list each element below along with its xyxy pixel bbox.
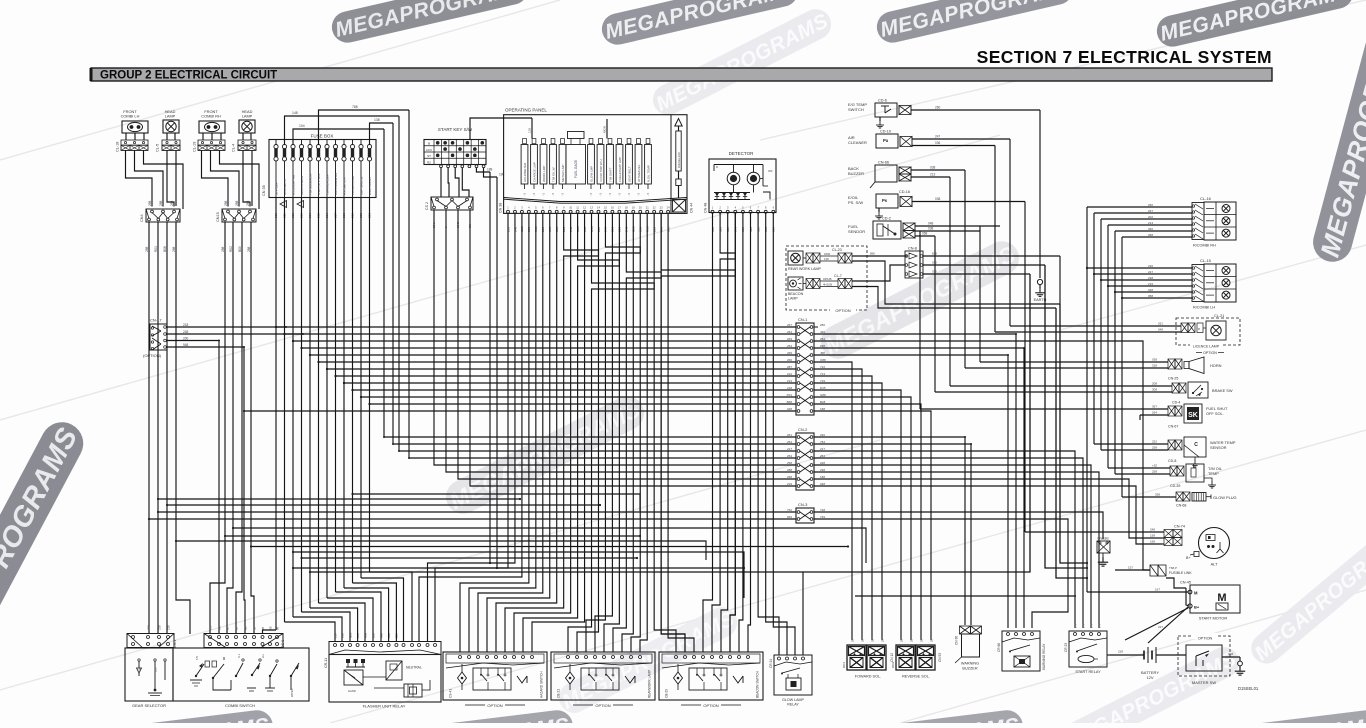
svg-text:58: 58	[252, 626, 256, 630]
wires start key to CS-2	[441, 168, 469, 197]
svg-text:CL-5: CL-5	[156, 144, 160, 152]
CN-2 right pin labels	[820, 433, 825, 486]
svg-text:P01: P01	[787, 393, 793, 397]
watermark capsule bottom-mid	[554, 602, 743, 718]
watermark capsule bottom-right-inner	[1056, 642, 1245, 728]
svg-text:138: 138	[824, 257, 829, 261]
svg-text:COMBI SWITCH: COMBI SWITCH	[225, 703, 255, 708]
svg-text:WARNING: WARNING	[961, 662, 979, 666]
option dashed box rear work and beacon lamps	[786, 246, 867, 314]
bus wire above fuse box 4	[293, 124, 384, 145]
wires HEAD LAMP left to CN4	[167, 150, 176, 206]
wires CD-2 right	[915, 222, 1000, 237]
operating panel riser wires	[528, 118, 608, 139]
lamp HEAD LAMP right	[238, 109, 256, 150]
svg-text:260: 260	[935, 106, 941, 110]
wire glow plug left	[1122, 493, 1176, 498]
svg-text:288: 288	[787, 468, 792, 472]
wire lower bus line 8	[292, 551, 744, 598]
svg-text:066: 066	[1148, 227, 1153, 231]
switch E/G TEMP SWITCH CD-6	[848, 99, 911, 118]
svg-text:R2: R2	[427, 160, 431, 164]
svg-text:Chassis: Chassis	[1097, 537, 1109, 541]
svg-text:HORN&T/S: HORN&T/S	[283, 179, 287, 195]
svg-text:Pa: Pa	[883, 138, 889, 143]
svg-text:CS-9: CS-9	[281, 640, 285, 648]
svg-text:266: 266	[1148, 203, 1153, 207]
svg-text:WORK LMP: WORK LMP	[542, 166, 546, 182]
wire lower bus line 5	[224, 535, 641, 537]
svg-text:B28: B28	[820, 400, 826, 404]
operating panel connector CN-38 pin row	[499, 203, 671, 213]
svg-text:248: 248	[183, 330, 189, 334]
lamp cluster CL-15 R/COMBI LH	[1192, 258, 1236, 310]
chassis earth block	[1097, 537, 1110, 567]
operating panel modules	[521, 139, 651, 197]
detector gauges	[714, 165, 773, 187]
svg-text:168: 168	[1150, 540, 1155, 544]
operating panel box	[504, 108, 687, 214]
fusible link	[1150, 565, 1192, 576]
svg-text:CN-17: CN-17	[150, 318, 162, 323]
svg-text:CD-39: CD-39	[1170, 484, 1180, 488]
svg-text:CN 53: CN 53	[938, 653, 942, 662]
svg-text:CN-68: CN-68	[1176, 504, 1186, 508]
svg-text:CN-2: CN-2	[798, 427, 808, 432]
switch MASTER SW OPTION	[1178, 633, 1230, 685]
svg-text:CR 23: CR 23	[1064, 643, 1068, 652]
svg-text:R8: R8	[217, 626, 221, 630]
svg-text:247: 247	[935, 135, 941, 139]
svg-text:FUSE BOX: FUSE BOX	[311, 134, 334, 139]
sensor vertical drop wires right side	[920, 110, 1040, 532]
svg-text:7MA/WZR,LMP: 7MA/WZR,LMP	[325, 174, 329, 195]
svg-text:GROUP 2 ELECTRICAL CIRCUIT: GROUP 2 ELECTRICAL CIRCUIT	[100, 70, 277, 82]
CN-1 right pin labels	[820, 323, 826, 411]
svg-text:START RELAY: START RELAY	[1075, 670, 1101, 674]
wire weave crossover pairs	[505, 213, 735, 652]
svg-text:935UB: 935UB	[823, 277, 832, 281]
svg-text:287: 287	[787, 365, 792, 369]
stray junction dots lattice	[218, 326, 1025, 459]
svg-text:762: 762	[787, 508, 792, 512]
sensor T/M OIL TEMP CD-39	[1170, 464, 1223, 488]
combi switch box	[173, 648, 309, 708]
wires start key right jogs down	[476, 168, 504, 178]
connector CN15	[216, 209, 256, 222]
svg-text:REVERSE SOL.: REVERSE SOL.	[902, 675, 930, 679]
svg-text:J58: J58	[820, 351, 825, 355]
wire diagonal battery to B+	[1148, 607, 1188, 643]
svg-text:288: 288	[246, 200, 250, 206]
svg-text:213: 213	[787, 379, 792, 383]
svg-text:CS-41: CS-41	[449, 689, 453, 698]
svg-text:FLASH R,LMP: FLASH R,LMP	[351, 175, 355, 195]
svg-text:CN-1: CN-1	[798, 317, 808, 322]
svg-text:REAR WORK LAMP: REAR WORK LAMP	[788, 267, 822, 271]
connector CN-2	[796, 427, 814, 490]
svg-text:1 T: 1 T	[1081, 624, 1085, 628]
svg-text:240: 240	[820, 433, 825, 437]
wire weave staircases from operating panel and detector to bottom option boxes	[460, 213, 751, 652]
svg-text:188: 188	[820, 475, 825, 479]
svg-text:MON: MON	[603, 126, 607, 133]
svg-text:H.L: H.L	[261, 653, 265, 658]
wire CN-3 p2 to warning relay	[814, 519, 1068, 628]
svg-text:28: 28	[860, 638, 864, 642]
svg-text:719: 719	[820, 379, 825, 383]
svg-text:254: 254	[820, 337, 825, 341]
watermark capsule bottom-far-right-edge	[1175, 708, 1366, 728]
svg-text:CL-21: CL-21	[1214, 314, 1224, 318]
svg-text:048: 048	[1148, 288, 1153, 292]
svg-text:28: 28	[909, 638, 913, 642]
svg-text:CN4: CN4	[140, 214, 144, 222]
wires CN-66 right	[911, 166, 965, 178]
CN-3 pin labels	[787, 508, 825, 519]
svg-text:048: 048	[787, 407, 792, 411]
buzzer BACK BUZZER CN-66	[848, 161, 911, 189]
wire labels above CS-9	[208, 626, 279, 630]
wire staircase operating panel pins 1-3 to flasher	[419, 213, 522, 641]
wires CN-2 right pins to warning buzzer	[814, 437, 971, 625]
svg-text:G88: G88	[820, 393, 826, 397]
svg-text:068: 068	[1148, 233, 1153, 237]
svg-text:104: 104	[299, 124, 305, 128]
svg-text:318: 318	[1152, 364, 1157, 368]
svg-text:038: 038	[1152, 358, 1157, 362]
svg-text:BUZZER: BUZZER	[848, 171, 864, 176]
flasher unit relay box	[329, 655, 441, 709]
lamp LICENCE LAMP CL-21 OPTION	[1176, 314, 1240, 355]
svg-text:CHARGE LMP: CHARGE LMP	[533, 162, 537, 182]
svg-text:248: 248	[1150, 528, 1155, 532]
wires CN-17 to midfield	[166, 323, 303, 347]
svg-text:264: 264	[1152, 411, 1157, 415]
wire lower bus line 3	[166, 504, 601, 506]
svg-text:358: 358	[1155, 493, 1160, 497]
svg-text:048: 048	[1158, 328, 1163, 332]
watermark capsule center	[440, 390, 650, 519]
svg-text:R/COMBI RH: R/COMBI RH	[1193, 244, 1216, 248]
svg-text:264: 264	[787, 330, 792, 334]
wire CN-1 p3 to fusible link	[814, 341, 1150, 570]
watermark capsule top-mid-b	[874, 0, 1076, 46]
svg-text:200: 200	[183, 337, 189, 341]
svg-text:038: 038	[928, 227, 934, 231]
wire CN-8 drop to glow lamp relay pin 4	[803, 274, 1030, 655]
svg-text:CR-11: CR-11	[324, 658, 328, 668]
svg-text:713: 713	[820, 372, 825, 376]
svg-text:898: 898	[870, 252, 875, 256]
watermark capsule bottom-center-edge	[365, 708, 574, 728]
svg-text:1800: 1800	[824, 252, 831, 256]
solenoid FORWARD SOL	[842, 638, 894, 678]
svg-text:LMP SW(T/S): LMP SW(T/S)	[359, 177, 363, 195]
wires CN-2 right pins to start relay	[814, 451, 1099, 628]
start relay CR-23	[1064, 624, 1107, 674]
svg-text:#38: #38	[820, 344, 825, 348]
wire long horizontal y572	[309, 571, 803, 573]
wire to start motor M terminal	[1087, 588, 1188, 593]
fuse box	[269, 134, 376, 198]
svg-text:START MOTOR: START MOTOR	[1199, 616, 1228, 621]
svg-text:CN-67: CN-67	[1168, 425, 1178, 429]
svg-text:008: 008	[1228, 652, 1233, 656]
glow plug CN-68	[1176, 492, 1237, 508]
vertical bus right side	[1087, 207, 1122, 592]
connector CN4	[140, 209, 180, 222]
svg-text:CB-29: CB-29	[665, 689, 669, 698]
bus wire 13B above fuse box	[370, 118, 394, 145]
svg-text:SECTION 7 ELECTRICAL SYSTEM: SECTION 7 ELECTRICAL SYSTEM	[977, 47, 1272, 67]
wire fusible node down to start motor B+	[1186, 588, 1189, 606]
watermark capsule mid-right	[815, 235, 1025, 364]
svg-text:712: 712	[820, 365, 825, 369]
svg-text:058: 058	[1148, 294, 1153, 298]
svg-text:268: 268	[787, 475, 792, 479]
wire lower bus line 9	[300, 557, 638, 559]
svg-text:218: 218	[166, 625, 170, 630]
wire labels below fuse box	[274, 213, 372, 218]
wire from start key area to operating panel riser	[470, 118, 532, 139]
svg-text:CS 2: CS 2	[425, 202, 429, 210]
wires HEAD LAMP right to CN15	[243, 150, 252, 206]
svg-text:START KEY S/W: START KEY S/W	[438, 127, 473, 132]
alternator ALT CN-74	[1164, 525, 1230, 567]
svg-text:288: 288	[221, 246, 225, 252]
connector CN-3	[796, 502, 814, 523]
lamp REAR WORK LAMP with CL-23	[788, 248, 852, 271]
svg-text:BRAKE SW: BRAKE SW	[1212, 388, 1233, 393]
watermark capsule top-left	[329, 0, 531, 46]
wire bus fuse box drops to CN-1 left pins	[243, 326, 796, 412]
svg-text:OFF SOL.: OFF SOL.	[1206, 411, 1224, 416]
detector box	[709, 151, 776, 213]
svg-text:GLOW LAMP: GLOW LAMP	[782, 698, 804, 702]
svg-text:CN 38: CN 38	[499, 203, 503, 213]
svg-text:CN 44: CN 44	[690, 203, 694, 213]
svg-text:CL-15: CL-15	[1200, 258, 1212, 263]
svg-text:O88: O88	[820, 358, 826, 362]
bus wire 14B above fuse box	[285, 111, 400, 145]
wires into CL-16 from vertical bus	[1087, 203, 1192, 237]
wire lower bus line 4	[232, 527, 866, 563]
svg-text:CN 35: CN 35	[262, 185, 266, 196]
glow lamp relay CR-24	[769, 655, 812, 707]
svg-text:748: 748	[820, 508, 825, 512]
wire CN-1 p2 to warning relay	[814, 334, 1016, 628]
svg-text:BEACON SWITCH: BEACON SWITCH	[756, 670, 760, 698]
svg-text:G8: G8	[243, 626, 247, 630]
wire lower bus line 6	[175, 540, 706, 560]
svg-text:219: 219	[787, 482, 792, 486]
svg-text:L8B: L8B	[154, 667, 158, 672]
lamp cluster CL-16 R/COMBI RH	[1192, 196, 1236, 248]
option box REARWORK LAMP switch	[551, 652, 655, 708]
svg-text:PS. S/W: PS. S/W	[848, 200, 863, 205]
svg-text:CN15: CN15	[216, 212, 220, 222]
svg-text:38: 38	[234, 626, 238, 630]
svg-text:28: 28	[880, 638, 884, 642]
wire long drop right of fuse box 4	[383, 129, 385, 437]
svg-text:266: 266	[787, 358, 792, 362]
wire long drop right of fuse box 2	[398, 116, 400, 451]
svg-text:436: 436	[820, 330, 825, 334]
svg-text:R.ELY,STP SOL: R.ELY,STP SOL	[317, 173, 321, 195]
svg-text:218: 218	[146, 625, 150, 630]
svg-text:228: 228	[1148, 276, 1153, 280]
svg-text:CD-10: CD-10	[880, 130, 891, 134]
operating panel level meter	[675, 119, 682, 199]
svg-text:CN-66: CN-66	[878, 161, 889, 165]
svg-text:1 T: 1 T	[1073, 624, 1077, 628]
svg-text:048: 048	[820, 482, 825, 486]
wire CN-3 p1 to chassis earth	[814, 512, 1103, 539]
solenoid FUEL SHUT OFF SOL CN-67	[1168, 404, 1228, 429]
svg-text:28: 28	[929, 638, 933, 642]
svg-text:G.LOW,MP RE: G.LOW,MP RE	[291, 175, 295, 195]
connector CS-1 gear selector	[127, 634, 177, 649]
svg-text:CN-74: CN-74	[1174, 525, 1185, 529]
svg-text:R02: R02	[229, 246, 233, 252]
svg-text:219: 219	[1148, 282, 1153, 286]
svg-text:CR 24: CR 24	[769, 659, 773, 668]
svg-text:FUSIBLE LINK: FUSIBLE LINK	[1169, 571, 1192, 575]
svg-text:CD-8: CD-8	[1168, 459, 1176, 463]
svg-text:CN 48: CN 48	[704, 203, 708, 213]
svg-text:280: 280	[820, 323, 825, 327]
bus wire 788 above fuse box	[319, 105, 410, 145]
svg-text:WIPER: WIPER	[290, 688, 294, 697]
svg-text:HAZARD SWITCH: HAZARD SWITCH	[540, 671, 544, 698]
svg-text:258: 258	[1152, 470, 1157, 474]
wire master switch to earth	[1222, 652, 1245, 675]
svg-text:749: 749	[820, 515, 825, 519]
watermark capsule mid-upper	[648, 4, 837, 120]
svg-text:B09: B09	[238, 246, 242, 252]
svg-text:158: 158	[1150, 534, 1155, 538]
svg-text:TEMP: TEMP	[1208, 471, 1219, 476]
wire bus CN4 down to gear selector	[149, 222, 190, 634]
svg-text:ACC: ACC	[426, 148, 433, 152]
svg-text:258: 258	[787, 461, 792, 465]
svg-text:DO2: DO2	[891, 662, 895, 669]
svg-text:CN-8: CN-8	[908, 247, 917, 251]
svg-text:T/M SOLENOIR: T/M SOLENOIR	[308, 173, 312, 195]
banner GROUP 2 ELECTRICAL CIRCUIT	[91, 68, 1272, 82]
svg-text:1 B: 1 B	[208, 626, 212, 630]
svg-text:252: 252	[1152, 440, 1157, 444]
svg-text:267: 267	[787, 323, 792, 327]
svg-text:COMBI LH: COMBI LH	[121, 114, 140, 119]
svg-text:COMBI RH: COMBI RH	[201, 114, 221, 119]
solenoid REVERSE SOL	[891, 638, 942, 678]
svg-text:12V: 12V	[1146, 675, 1153, 680]
svg-text:068: 068	[922, 232, 928, 236]
svg-text:227: 227	[1158, 625, 1163, 629]
wire diagonal start relay to B+	[1125, 608, 1188, 640]
svg-text:948: 948	[183, 343, 189, 347]
svg-text:226: 226	[1148, 264, 1153, 268]
svg-text:28: 28	[870, 638, 874, 642]
lamp HEAD LAMP left	[162, 109, 180, 150]
svg-text:288: 288	[148, 200, 152, 206]
detector connector CN-48 pin row	[704, 203, 775, 213]
svg-text:FUEL GAGE: FUEL GAGE	[574, 160, 578, 178]
wires CN-1 p10-p13 to reverse solenoid	[814, 390, 931, 640]
wires FRONT COMBI LH to CN4	[126, 150, 184, 209]
svg-text:HAND: HAND	[348, 689, 356, 693]
svg-text:W.TM&FUEL: W.TM&FUEL	[637, 164, 641, 182]
svg-text:CL-4: CL-4	[232, 144, 236, 152]
wire lower bus line 7	[250, 545, 849, 547]
svg-text:038: 038	[932, 261, 937, 265]
svg-text:SENSOR: SENSOR	[1210, 445, 1227, 450]
wire CN-1 p5 to warning relay	[814, 355, 1008, 628]
wire fusible link to B+ node	[1166, 578, 1186, 588]
svg-text:BEACON&RR: BEACON&RR	[300, 175, 304, 195]
svg-text:OPTION: OPTION	[1203, 351, 1217, 355]
watermark capsule top-right	[1154, 0, 1356, 50]
wires fuel shut off left	[920, 405, 1168, 421]
svg-text:367: 367	[1152, 405, 1157, 409]
svg-text:M: M	[1217, 592, 1226, 604]
svg-text:(OPTION): (OPTION)	[143, 353, 162, 358]
connector CR-11 flasher unit	[324, 642, 441, 669]
svg-text:T/M SHIFT: T/M SHIFT	[609, 167, 613, 182]
svg-text:261: 261	[787, 433, 792, 437]
svg-text:CD-16: CD-16	[899, 190, 910, 194]
wire CD-16 right	[912, 197, 1025, 202]
connector CN-17 (OPTION)	[143, 318, 167, 359]
svg-text:LAMP: LAMP	[242, 114, 253, 119]
wires water temp left	[1094, 440, 1168, 451]
svg-text:218: 218	[183, 323, 189, 327]
wire CN-1 p4 to warning relay	[814, 348, 1024, 628]
svg-text:CB-21: CB-21	[557, 689, 561, 698]
svg-text:254: 254	[787, 440, 792, 444]
svg-text:28: 28	[850, 638, 854, 642]
svg-text:038: 038	[930, 166, 936, 170]
svg-text:E/WATREUN: E/WATREUN	[368, 177, 372, 195]
watermark capsule bottom-right-edge	[815, 708, 1024, 728]
svg-text:NEUTRAL: NEUTRAL	[406, 666, 422, 670]
svg-text:138: 138	[374, 118, 380, 122]
junction dots on CN-1 feeds	[275, 326, 371, 405]
switch E/OIL PS S/W CD-16	[848, 190, 912, 208]
svg-text:GLOW LMP: GLOW LMP	[590, 166, 594, 182]
wires CN-8 right	[923, 252, 1060, 275]
svg-text:1 T: 1 T	[1089, 624, 1093, 628]
detector diode row	[714, 185, 770, 200]
watermark capsule right-edge	[1309, 14, 1366, 266]
svg-text:265: 265	[787, 351, 792, 355]
svg-text:CL-19: CL-19	[193, 142, 197, 152]
start key switch	[424, 127, 486, 165]
svg-text:CR 66: CR 66	[997, 643, 1001, 652]
connector CN-8	[905, 247, 923, 279]
svg-text:M: M	[1194, 591, 1198, 596]
connector CN-1	[796, 317, 814, 415]
svg-text:LICENCE LAMP: LICENCE LAMP	[1193, 345, 1220, 349]
svg-text:DIESEL100: DIESEL100	[677, 152, 681, 168]
svg-text:036: 036	[935, 141, 941, 145]
svg-text:969: 969	[787, 515, 792, 519]
svg-text:C: C	[1194, 442, 1198, 448]
svg-text:217: 217	[787, 447, 792, 451]
svg-text:MASTER SW: MASTER SW	[1192, 680, 1216, 685]
